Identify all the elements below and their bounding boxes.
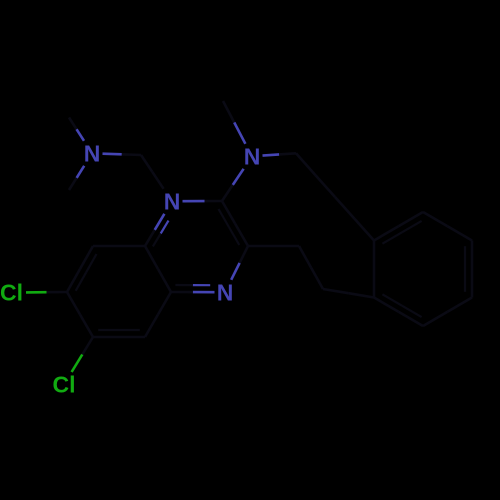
svg-text:Cl: Cl — [0, 280, 23, 306]
svg-text:N: N — [84, 140, 101, 166]
bond C6-Cl — [72, 337, 93, 372]
bond C2-N amine — [222, 169, 244, 201]
svg-text:Cl: Cl — [53, 372, 76, 398]
bond CH2-phenyl — [335, 197, 374, 241]
bond C8a-C8 — [93, 245, 145, 248]
svg-text:N: N — [217, 279, 234, 305]
bond C7-C6 — [67, 292, 93, 337]
bond CH2-CH2 lower chain — [299, 246, 323, 289]
svg-text:N: N — [244, 143, 261, 169]
double bond N4=C4a — [171, 285, 215, 292]
double bond C6=C5 — [93, 330, 145, 337]
bond phenyl C2-C3 — [423, 212, 472, 241]
bond N1-C2 — [183, 200, 223, 203]
bond C3-CH2 lower chain — [248, 245, 299, 248]
bond amine N-CH2 — [263, 153, 297, 155]
bond dimethylamino N-CH3 upper — [69, 118, 84, 141]
double bond C8=C7 — [67, 246, 97, 292]
double bond phenyl C1=C2 — [374, 212, 423, 244]
bond C7-Cl — [26, 291, 67, 294]
bond amine N-CH3 — [223, 101, 245, 144]
double bond N1=C8a — [145, 214, 169, 247]
bond CH2-N1 — [141, 155, 164, 189]
bond phenyl C4-C5 — [423, 298, 472, 327]
bond C3-N4 — [231, 246, 248, 280]
bond phenyl C6-C1 — [373, 241, 376, 298]
bond CH2-CH2 upper chain — [296, 153, 335, 197]
bond C5-C4a — [145, 292, 171, 337]
double bond phenyl C5=C6 — [374, 294, 423, 326]
svg-text:N: N — [164, 188, 181, 214]
bond C4a-C8a — [145, 246, 171, 292]
double bond phenyl C3=C4 — [465, 241, 472, 298]
bond dimethylamino N-CH2 — [103, 154, 142, 155]
bond dimethylamino N-CH3 lower — [69, 166, 84, 190]
bond CH2-phenyl lower — [323, 289, 374, 298]
double bond C2=C3 — [219, 201, 249, 246]
